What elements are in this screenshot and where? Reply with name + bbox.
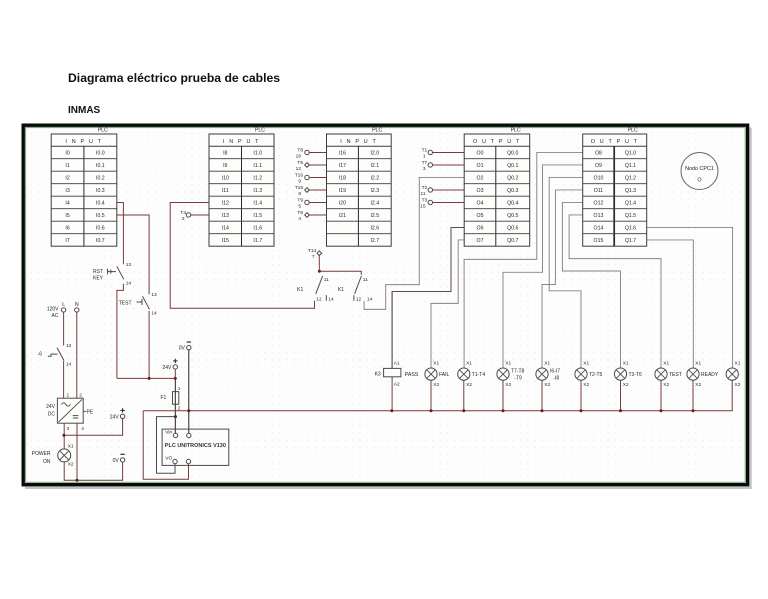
svg-text:I N P U T: I N P U T (340, 139, 377, 145)
svg-text:I15: I15 (222, 238, 229, 244)
svg-text:T14: T14 (308, 248, 317, 254)
svg-text:Q1.0: Q1.0 (625, 150, 636, 156)
svg-text:O9: O9 (595, 163, 602, 169)
svg-text:N: N (75, 302, 79, 308)
svg-text:X2: X2 (735, 382, 741, 388)
svg-text:X2: X2 (583, 382, 589, 388)
svg-text:I18: I18 (339, 175, 346, 181)
svg-text:I10: I10 (222, 175, 229, 181)
svg-text:-I8: -I8 (553, 376, 559, 382)
svg-text:I0.2: I0.2 (96, 175, 105, 181)
svg-text:I1: I1 (65, 163, 69, 169)
svg-text:X2: X2 (466, 382, 472, 388)
svg-text:1: 1 (423, 153, 426, 159)
svg-text:Q0.5: Q0.5 (507, 213, 518, 219)
svg-text:X2: X2 (505, 382, 511, 388)
svg-text:X2: X2 (695, 382, 701, 388)
svg-text:24V: 24V (46, 404, 56, 410)
svg-text:T7-T8: T7-T8 (511, 369, 525, 375)
svg-text:O2: O2 (477, 175, 484, 181)
svg-text:14: 14 (367, 296, 373, 302)
svg-text:I9: I9 (223, 163, 227, 169)
svg-text:Q1.7: Q1.7 (625, 238, 636, 244)
svg-text:5: 5 (298, 203, 301, 209)
svg-text:POWER: POWER (32, 451, 51, 457)
svg-text:PLC: PLC (98, 128, 108, 134)
svg-text:I1.2: I1.2 (253, 175, 262, 181)
svg-text:I5: I5 (65, 213, 69, 219)
svg-text:I1.1: I1.1 (253, 163, 262, 169)
svg-text:9: 9 (298, 178, 301, 184)
svg-text:I6: I6 (65, 225, 69, 231)
svg-text:T2-T5: T2-T5 (589, 372, 603, 378)
svg-text:TEST: TEST (669, 372, 682, 378)
svg-text:3: 3 (423, 166, 426, 172)
svg-text:O12: O12 (594, 200, 604, 206)
svg-text:16: 16 (296, 153, 302, 159)
svg-text:Q1.1: Q1.1 (625, 163, 636, 169)
svg-text:11: 11 (363, 277, 368, 283)
svg-text:14: 14 (126, 280, 132, 286)
svg-text:O1: O1 (477, 163, 484, 169)
svg-text:I13: I13 (222, 213, 229, 219)
svg-text:X1: X1 (583, 360, 589, 366)
svg-text:T3-T6: T3-T6 (629, 372, 643, 378)
svg-text:I21: I21 (339, 213, 346, 219)
svg-text:O5: O5 (477, 213, 484, 219)
svg-text:I12: I12 (222, 200, 229, 206)
svg-text:I1.7: I1.7 (253, 238, 262, 244)
svg-text:T9: T9 (297, 197, 303, 203)
svg-text:I0.5: I0.5 (96, 213, 105, 219)
svg-text:AC: AC (52, 313, 59, 319)
svg-text:O0: O0 (477, 150, 484, 156)
svg-text:I2.0: I2.0 (370, 150, 379, 156)
svg-text:RST: RST (93, 269, 103, 275)
svg-text:I2.1: I2.1 (370, 163, 379, 169)
svg-text:Q0.3: Q0.3 (507, 188, 518, 194)
svg-text:PE: PE (87, 410, 94, 416)
svg-text:I2.2: I2.2 (370, 175, 379, 181)
svg-text:I0: I0 (65, 150, 69, 156)
svg-text:T2: T2 (422, 185, 428, 191)
svg-text:O15: O15 (594, 238, 604, 244)
svg-text:Q0.6: Q0.6 (507, 225, 518, 231)
svg-text:I19: I19 (339, 188, 346, 194)
svg-text:I2.7: I2.7 (370, 238, 379, 244)
svg-text:X2: X2 (663, 382, 669, 388)
svg-text:X1: X1 (623, 360, 629, 366)
svg-text:X1: X1 (505, 360, 511, 366)
svg-text:O4: O4 (477, 200, 484, 206)
svg-text:I0.6: I0.6 (96, 225, 105, 231)
svg-text:O14: O14 (594, 225, 604, 231)
svg-text:I4: I4 (65, 200, 69, 206)
svg-text:TEST: TEST (119, 300, 132, 306)
svg-text:A2: A2 (394, 382, 400, 388)
svg-text:2: 2 (79, 393, 82, 399)
svg-text:PLC: PLC (372, 128, 382, 134)
svg-text:I2.3: I2.3 (370, 188, 379, 194)
svg-text:O10: O10 (594, 175, 604, 181)
svg-text:I N P U T: I N P U T (223, 139, 260, 145)
svg-text:I7: I7 (65, 238, 69, 244)
svg-text:I3: I3 (65, 188, 69, 194)
svg-text:I2.4: I2.4 (370, 200, 379, 206)
svg-text:X2: X2 (433, 382, 439, 388)
svg-text:4: 4 (81, 426, 84, 432)
svg-text:Q0.1: Q0.1 (507, 163, 518, 169)
svg-text:T3: T3 (422, 197, 428, 203)
svg-text:12: 12 (316, 296, 322, 302)
svg-text:T4: T4 (180, 210, 186, 216)
svg-text:Q0.4: Q0.4 (507, 200, 518, 206)
svg-text:F1: F1 (160, 395, 166, 401)
svg-text:I14: I14 (222, 225, 229, 231)
svg-text:KEY: KEY (93, 276, 104, 282)
svg-text:T5: T5 (297, 160, 303, 166)
svg-text:X1: X1 (695, 360, 701, 366)
svg-text:O8: O8 (595, 150, 602, 156)
svg-text:12: 12 (356, 296, 362, 302)
svg-text:I0.0: I0.0 (96, 150, 105, 156)
svg-text:FAIL: FAIL (439, 372, 450, 378)
svg-text:I1.3: I1.3 (253, 188, 262, 194)
svg-text:I1.6: I1.6 (253, 225, 262, 231)
svg-text:X1: X1 (433, 360, 439, 366)
svg-text:2: 2 (178, 405, 181, 411)
svg-text:1: 1 (67, 393, 70, 399)
svg-text:Q1.4: Q1.4 (625, 200, 636, 206)
svg-text:PLC: PLC (511, 128, 521, 134)
svg-text:4: 4 (298, 216, 301, 222)
svg-text:I N P U T: I N P U T (65, 139, 102, 145)
svg-text:11: 11 (421, 191, 426, 197)
svg-text:13: 13 (126, 262, 132, 268)
svg-text:13: 13 (151, 292, 157, 298)
svg-text:-T9: -T9 (514, 376, 522, 382)
svg-text:INMAS: INMAS (68, 105, 101, 116)
svg-text:A1: A1 (394, 361, 400, 367)
svg-text:O U T P U T: O U T P U T (591, 139, 639, 145)
svg-text:X1: X1 (68, 444, 74, 450)
svg-text:I11: I11 (222, 188, 229, 194)
svg-text:O: O (697, 178, 701, 184)
svg-text:O11: O11 (594, 188, 604, 194)
svg-text:14: 14 (151, 310, 157, 316)
svg-text:Q0.2: Q0.2 (507, 175, 518, 181)
svg-text:Q1.5: Q1.5 (625, 213, 636, 219)
svg-text:Diagrama eléctrico prueba de c: Diagrama eléctrico prueba de cables (68, 71, 280, 85)
svg-text:X1: X1 (466, 360, 472, 366)
svg-text:X2: X2 (623, 382, 629, 388)
svg-text:O7: O7 (477, 238, 484, 244)
svg-text:120V: 120V (47, 306, 59, 312)
svg-text:8: 8 (298, 191, 301, 197)
svg-text:I16: I16 (339, 150, 346, 156)
svg-text:X2: X2 (68, 462, 74, 468)
svg-text:X1: X1 (735, 360, 741, 366)
svg-text:I2.6: I2.6 (370, 225, 379, 231)
svg-text:I6-I7: I6-I7 (550, 369, 560, 375)
svg-text:DC: DC (48, 411, 56, 417)
svg-text:I8: I8 (223, 150, 227, 156)
svg-text:I2: I2 (65, 175, 69, 181)
svg-text:I1.0: I1.0 (253, 150, 262, 156)
svg-text:I20: I20 (339, 200, 346, 206)
svg-text:7: 7 (312, 254, 315, 260)
svg-text:PASS: PASS (405, 372, 419, 378)
svg-text:Nodo CPC1: Nodo CPC1 (685, 166, 714, 172)
svg-text:12: 12 (296, 166, 302, 172)
svg-text:I2.5: I2.5 (370, 213, 379, 219)
svg-text:2: 2 (182, 216, 185, 222)
svg-text:K3: K3 (375, 371, 381, 377)
svg-text:14: 14 (328, 296, 334, 302)
svg-text:T7: T7 (422, 160, 428, 166)
svg-text:Vin: Vin (165, 430, 172, 436)
svg-text:13: 13 (66, 343, 72, 349)
svg-text:I1.4: I1.4 (253, 200, 262, 206)
svg-text:O U T P U T: O U T P U T (473, 139, 521, 145)
svg-text:T1: T1 (422, 147, 428, 153)
svg-text:3: 3 (67, 426, 70, 432)
svg-text:O6: O6 (477, 225, 484, 231)
svg-text:I1.5: I1.5 (253, 213, 262, 219)
svg-text:X1: X1 (544, 360, 550, 366)
svg-text:Q0.7: Q0.7 (507, 238, 518, 244)
svg-text:O13: O13 (594, 213, 604, 219)
svg-text:-6: -6 (38, 351, 43, 357)
svg-text:Q0.0: Q0.0 (507, 150, 518, 156)
svg-text:X1: X1 (663, 360, 669, 366)
svg-text:K1: K1 (297, 287, 303, 293)
svg-text:ON: ON (43, 459, 51, 465)
svg-text:VO: VO (165, 456, 172, 462)
svg-text:T6: T6 (297, 210, 303, 216)
svg-text:T16: T16 (295, 172, 304, 178)
svg-text:T1-T4: T1-T4 (472, 372, 486, 378)
svg-text:1: 1 (178, 386, 181, 392)
svg-text:I0.1: I0.1 (96, 163, 105, 169)
svg-text:PLC UNITRONICS V130: PLC UNITRONICS V130 (165, 443, 226, 449)
svg-text:PLC: PLC (255, 128, 265, 134)
svg-text:I0.4: I0.4 (96, 200, 105, 206)
svg-text:15: 15 (420, 203, 426, 209)
svg-text:24V: 24V (110, 414, 120, 420)
svg-text:X2: X2 (544, 382, 550, 388)
svg-text:I0.7: I0.7 (96, 238, 105, 244)
svg-text:Q1.2: Q1.2 (625, 175, 636, 181)
svg-text:L: L (62, 302, 65, 308)
svg-text:T8: T8 (297, 147, 303, 153)
svg-text:0V: 0V (179, 346, 186, 352)
svg-text:14: 14 (66, 362, 72, 368)
svg-text:O3: O3 (477, 188, 484, 194)
svg-text:T15: T15 (295, 185, 304, 191)
svg-text:Q1.3: Q1.3 (625, 188, 636, 194)
svg-text:K1: K1 (338, 287, 344, 293)
svg-text:I17: I17 (339, 163, 346, 169)
svg-text:11: 11 (324, 277, 329, 283)
svg-text:READY: READY (701, 372, 719, 378)
svg-text:0V: 0V (113, 458, 120, 464)
svg-text:Q1.6: Q1.6 (625, 225, 636, 231)
svg-text:PLC: PLC (628, 128, 638, 134)
svg-text:24V: 24V (162, 365, 172, 371)
svg-text:I0.3: I0.3 (96, 188, 105, 194)
